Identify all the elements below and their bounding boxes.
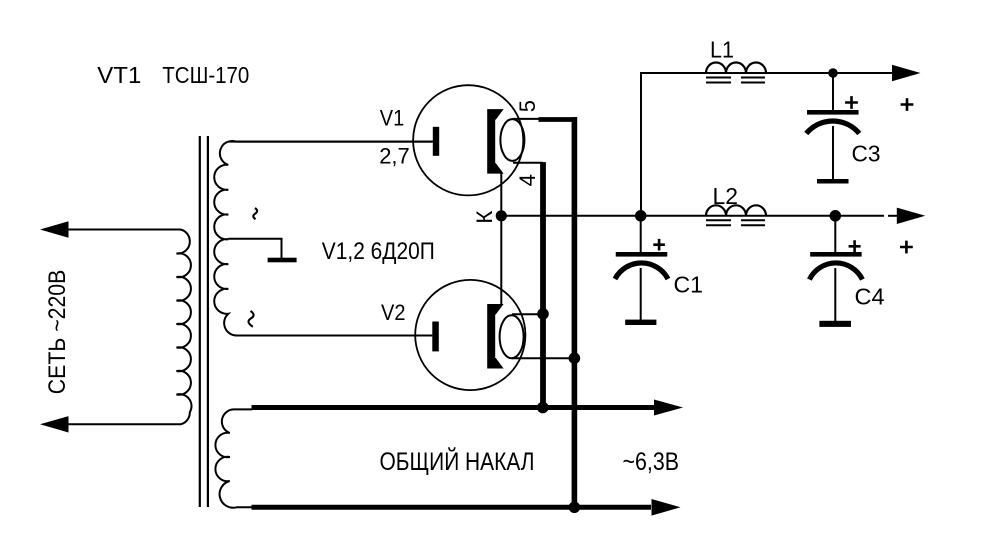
svg-text:V1,2 6Д20П: V1,2 6Д20П	[322, 238, 435, 265]
svg-text:ОБЩИЙ НАКАЛ: ОБЩИЙ НАКАЛ	[380, 448, 535, 476]
svg-text:V2: V2	[381, 300, 406, 325]
svg-text:К: К	[472, 211, 497, 224]
svg-text:4: 4	[515, 174, 540, 186]
svg-text:L1: L1	[710, 37, 734, 63]
svg-text:L2: L2	[713, 183, 739, 209]
svg-text:C3: C3	[852, 141, 881, 167]
svg-text:C4: C4	[855, 284, 885, 310]
svg-text:~6,3В: ~6,3В	[623, 449, 680, 476]
svg-text:2,7: 2,7	[379, 144, 410, 169]
svg-text:ТСШ-170: ТСШ-170	[162, 62, 249, 88]
svg-text:VT1: VT1	[97, 62, 141, 88]
svg-text:V1: V1	[380, 106, 405, 131]
svg-text:СЕТЬ ~220В: СЕТЬ ~220В	[44, 270, 71, 395]
svg-text:C1: C1	[674, 272, 704, 298]
svg-text:5: 5	[515, 100, 540, 112]
